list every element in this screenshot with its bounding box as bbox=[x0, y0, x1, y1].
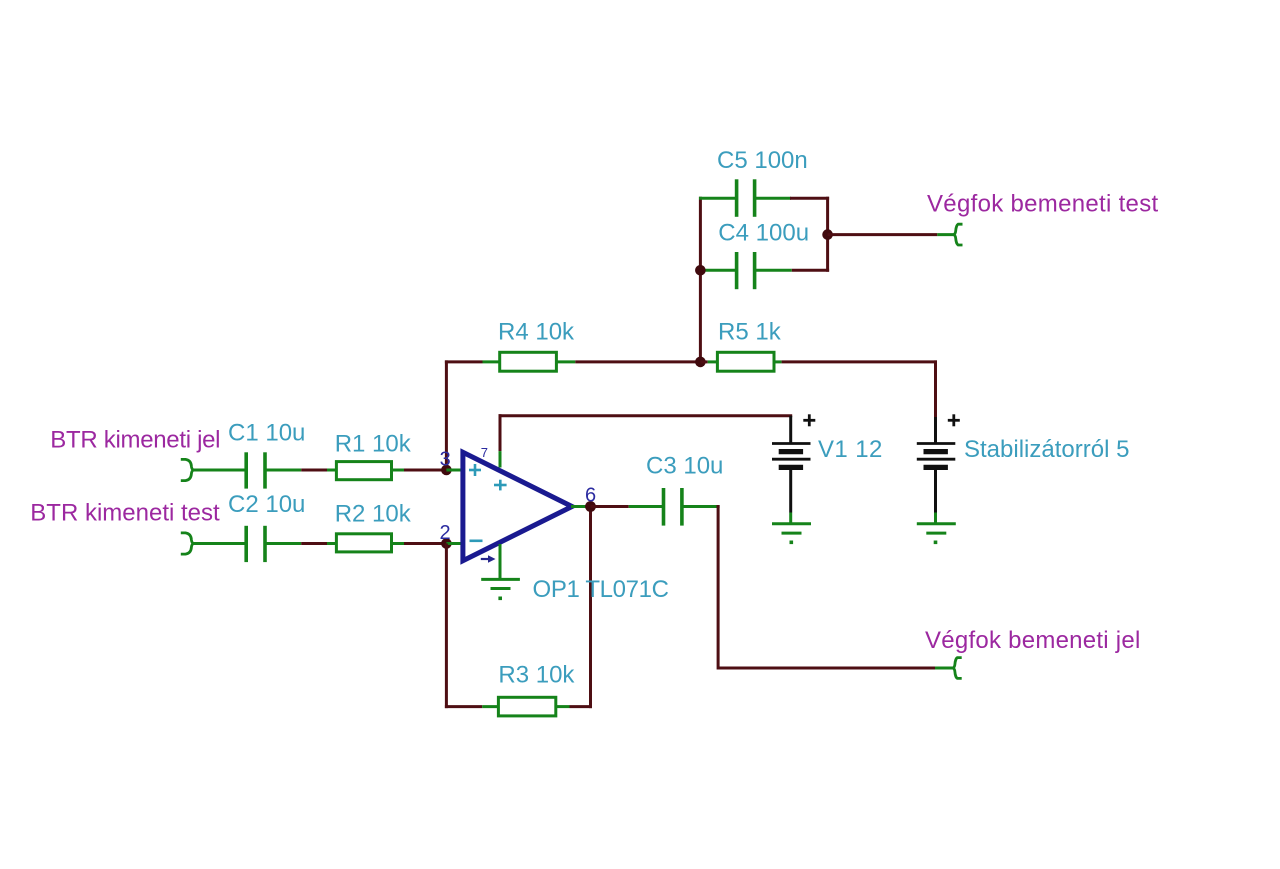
wire R3 left pin bbox=[482, 705, 498, 708]
battery V2 plus sign bbox=[948, 414, 960, 426]
capacitor C3 bbox=[664, 488, 682, 526]
wire R4 left pin bbox=[483, 360, 500, 363]
svg-text:R2 10k: R2 10k bbox=[335, 501, 412, 528]
capacitor C4 bbox=[737, 252, 755, 289]
svg-text:7: 7 bbox=[481, 445, 488, 460]
wire R4 right pin bbox=[556, 360, 575, 363]
wire net from C5/C4 top row, left corner vertical bbox=[699, 197, 702, 362]
connector BTR kimeneti jel bbox=[181, 459, 194, 480]
svg-text:R1 10k: R1 10k bbox=[335, 430, 412, 457]
wire R2 to pin 2 node bbox=[404, 542, 446, 545]
battery V1 bottom lead bbox=[789, 467, 792, 512]
capacitor C5 bbox=[737, 179, 755, 217]
op-amp pin 2 green stub bbox=[446, 542, 463, 545]
wire C4 row to right vertical bbox=[792, 269, 829, 272]
op-amp OP1 triangle bbox=[463, 452, 572, 560]
svg-text:BTR kimeneti jel: BTR kimeneti jel bbox=[50, 427, 220, 454]
junction R4/R5/C4 node bbox=[695, 357, 706, 368]
connector Vegfok bemeneti jel bbox=[953, 658, 962, 679]
resistor R2 bbox=[336, 534, 391, 552]
battery V2 (Stabilizatorrol) plates bbox=[917, 444, 956, 468]
wire pin 2 node down to R3 row bbox=[445, 544, 448, 709]
wire to Vegfok bemeneti test connector bbox=[828, 233, 938, 236]
wire C2 right pin bbox=[265, 542, 301, 545]
junction C4 left node bbox=[695, 265, 706, 276]
wire R2 right pin bbox=[392, 542, 405, 545]
op-amp pin 6 output green stub bbox=[571, 505, 591, 508]
svg-text:C2 10u: C2 10u bbox=[228, 491, 305, 518]
wire C5 row to right vertical bbox=[790, 197, 829, 200]
battery V2 top lead bbox=[934, 417, 937, 444]
svg-text:Stabilizátorról 5: Stabilizátorról 5 bbox=[964, 436, 1129, 463]
wire C4 left pin segment bbox=[700, 269, 736, 272]
op-amp pin 3 green stub bbox=[446, 469, 463, 472]
op-amp plus input mark bbox=[469, 464, 481, 476]
wire R2 left pin bbox=[327, 542, 336, 545]
junction pin 2 node bbox=[441, 538, 452, 549]
wire right vertical of C4/C5 loop bbox=[826, 197, 829, 272]
svg-text:V1 12: V1 12 bbox=[818, 436, 883, 463]
wire C3 right corner down bbox=[717, 505, 720, 508]
capacitor C2 bbox=[246, 526, 265, 562]
wire C1 to R1 net segment bbox=[301, 469, 327, 472]
battery V1 ground stub bbox=[789, 513, 792, 524]
wire C3 left pin bbox=[629, 505, 664, 508]
wire R3 right pin bbox=[556, 705, 570, 708]
wire pin 6 to C3 bbox=[591, 505, 629, 508]
wire R1 to pin 3 node bbox=[404, 469, 446, 472]
battery V2 bottom lead bbox=[934, 467, 937, 512]
op-amp V+ mark bbox=[494, 480, 507, 491]
wire R5 to battery 2 top bbox=[782, 360, 937, 363]
wire green stub at test connector bbox=[937, 233, 955, 236]
ground under V2 bbox=[917, 524, 956, 533]
battery V1 plus sign bbox=[803, 414, 815, 426]
svg-text:Végfok bemeneti test: Végfok bemeneti test bbox=[927, 191, 1159, 218]
svg-text:R5 1k: R5 1k bbox=[718, 319, 782, 346]
op-amp V- arrow mark bbox=[481, 558, 488, 560]
wire C1 right pin bbox=[265, 469, 301, 472]
svg-text:C1 10u: C1 10u bbox=[228, 419, 305, 446]
connector Vegfok bemeneti test bbox=[954, 224, 963, 245]
resistor R1 bbox=[336, 462, 391, 480]
svg-text:BTR kimeneti test: BTR kimeneti test bbox=[30, 500, 220, 527]
wire C5 right pin segment bbox=[755, 197, 791, 200]
op-amp pin 4 green stub bbox=[499, 544, 502, 579]
wire output vertical down from pin 6 bbox=[589, 507, 592, 709]
wire R1 left pin bbox=[327, 469, 336, 472]
ground under op-amp bbox=[481, 579, 520, 588]
svg-text:C3 10u: C3 10u bbox=[646, 453, 723, 480]
svg-text:Végfok bemeneti jel: Végfok bemeneti jel bbox=[925, 627, 1141, 654]
svg-text:3: 3 bbox=[440, 449, 451, 471]
wire green stub at jel connector bbox=[935, 667, 954, 670]
svg-text:6: 6 bbox=[585, 485, 596, 507]
resistor R3 bbox=[498, 697, 555, 716]
resistor R5 bbox=[717, 352, 774, 371]
ground under V1 bbox=[772, 524, 811, 533]
wire vertical down to battery 2 bbox=[934, 360, 937, 417]
junction pin 6 node bbox=[585, 501, 596, 512]
wire R5 left pin bbox=[708, 360, 718, 363]
wire C2 to R2 net segment bbox=[301, 542, 327, 545]
battery V2 ground stub bbox=[934, 513, 937, 524]
resistor R4 bbox=[500, 352, 557, 371]
wire R4 to center junction bbox=[575, 360, 700, 363]
op-amp minus input mark bbox=[470, 539, 483, 542]
svg-text:R3 10k: R3 10k bbox=[498, 662, 575, 689]
svg-text:OP1 TL071C: OP1 TL071C bbox=[533, 576, 669, 603]
battery V1 top lead bbox=[789, 416, 792, 444]
svg-text:C5 100n: C5 100n bbox=[717, 147, 808, 174]
svg-text:R4 10k: R4 10k bbox=[498, 319, 575, 346]
wire test input to C2 bbox=[193, 542, 247, 545]
battery V1 plates bbox=[772, 444, 811, 468]
wire C3 right pin bbox=[682, 505, 718, 508]
wire R3 to output vertical bbox=[570, 705, 593, 708]
svg-text:2: 2 bbox=[440, 522, 451, 544]
junction pin 3 node bbox=[441, 465, 452, 476]
wire C4 right pin segment bbox=[755, 269, 792, 272]
wire R4 row left segment bbox=[445, 360, 483, 363]
capacitor C1 bbox=[246, 452, 265, 488]
svg-text:C4 100u: C4 100u bbox=[718, 219, 809, 246]
wire R5 right pin bbox=[774, 360, 782, 363]
wire R3 row left segment bbox=[445, 705, 482, 708]
wire op-amp pin 7 vertical bbox=[499, 414, 502, 451]
wire jel input to C1 bbox=[193, 469, 247, 472]
wire R4 left vertical to pin 3 node bbox=[445, 360, 448, 470]
connector BTR kimeneti test bbox=[181, 533, 194, 554]
pin 7 green stub bbox=[499, 451, 502, 467]
junction right mid node to Vegfok test bbox=[822, 229, 833, 240]
wire to Vegfok bemeneti jel connector bbox=[718, 667, 935, 670]
wire op-amp V+ loop horizontal bbox=[499, 414, 793, 417]
wire junction to R5 left pin bbox=[700, 360, 707, 363]
wire C5 top row left green pin segment bbox=[699, 197, 737, 200]
wire R1 right pin bbox=[392, 469, 405, 472]
